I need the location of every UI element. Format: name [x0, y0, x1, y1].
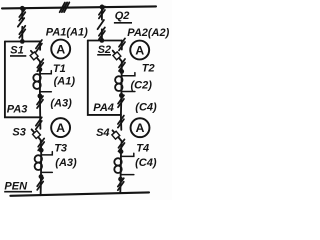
- svg-text:S4: S4: [96, 127, 109, 139]
- svg-text:(A3): (A3): [50, 97, 72, 109]
- svg-text:(C2): (C2): [131, 80, 153, 92]
- svg-text:T3: T3: [54, 142, 67, 154]
- svg-text:T4: T4: [136, 143, 149, 155]
- svg-text:(A3): (A3): [55, 157, 77, 169]
- svg-text:PA3: PA3: [7, 103, 28, 115]
- svg-text:S3: S3: [12, 126, 25, 138]
- svg-text:(A1): (A1): [54, 75, 76, 87]
- svg-text:T2: T2: [142, 63, 155, 75]
- svg-text:(C4): (C4): [135, 157, 157, 169]
- svg-text:(C4): (C4): [135, 101, 157, 113]
- svg-text:Q2: Q2: [115, 10, 130, 22]
- svg-text:PA1(A1): PA1(A1): [46, 26, 88, 38]
- svg-text:T1: T1: [53, 63, 66, 75]
- svg-text:PA4: PA4: [93, 102, 114, 114]
- svg-text:PEN: PEN: [4, 181, 28, 193]
- svg-text:S1: S1: [10, 45, 23, 57]
- svg-text:PA2(A2): PA2(A2): [127, 27, 169, 39]
